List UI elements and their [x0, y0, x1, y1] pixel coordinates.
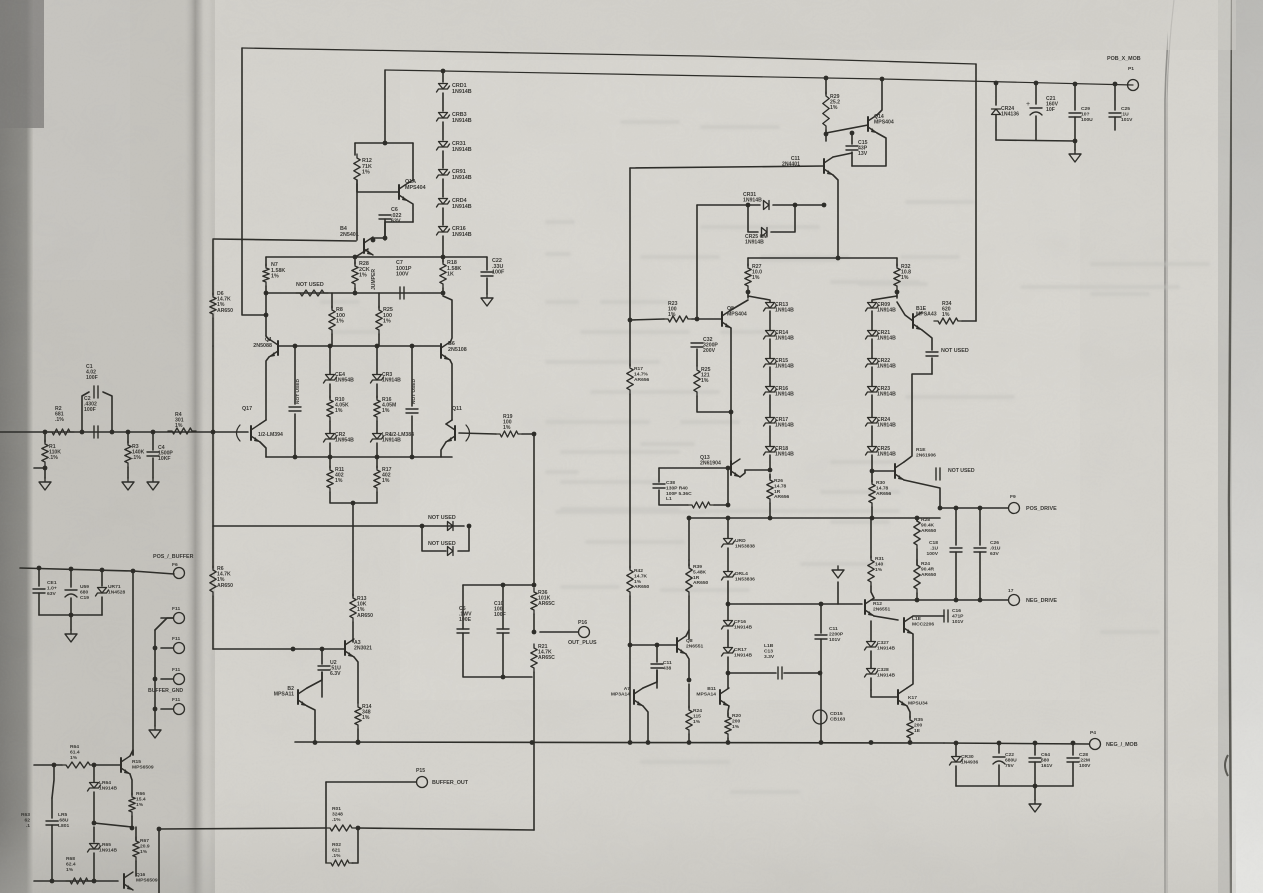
diode CR24	[871, 395, 873, 417]
node	[768, 516, 773, 521]
wire	[486, 278, 488, 294]
wire	[384, 70, 386, 143]
capacitor C7	[400, 287, 404, 299]
wire	[462, 585, 464, 629]
node	[264, 291, 269, 296]
wire	[686, 630, 689, 636]
capacitor C15	[851, 133, 853, 144]
node	[532, 583, 537, 588]
node	[824, 132, 829, 137]
node	[819, 740, 824, 745]
resistor R01	[326, 825, 356, 831]
wire	[352, 503, 354, 596]
wire	[161, 617, 173, 619]
wire	[152, 458, 154, 478]
capacitor C22b	[998, 743, 1000, 753]
transistor Q16	[123, 874, 125, 888]
node	[655, 643, 660, 648]
node	[157, 827, 162, 832]
transistor A3 2N3021	[344, 641, 346, 655]
diode CR23	[871, 367, 873, 386]
node	[92, 821, 97, 826]
wire	[916, 593, 918, 600]
diode CR27	[870, 621, 872, 641]
node	[100, 568, 105, 573]
terminal F13	[174, 674, 185, 685]
wire	[826, 125, 868, 133]
wire	[730, 413, 732, 461]
node	[153, 677, 158, 682]
wire	[354, 143, 356, 155]
node	[410, 455, 415, 460]
wire A3 base	[213, 648, 345, 650]
diode CR31	[439, 142, 448, 148]
wire	[825, 130, 827, 141]
terminal F14	[174, 704, 185, 715]
diode CR3	[376, 346, 378, 374]
wire	[727, 548, 729, 571]
resistor R13	[350, 594, 356, 622]
wire	[408, 201, 413, 222]
wire	[896, 290, 898, 298]
wire Q11 emitter	[441, 442, 446, 457]
node	[383, 141, 388, 146]
wire	[916, 549, 918, 560]
wire	[1034, 786, 1036, 800]
wire	[727, 581, 729, 620]
wire	[769, 455, 771, 470]
node	[915, 516, 920, 521]
wire	[727, 468, 729, 505]
svg-text:NOT USED: NOT USED	[948, 468, 975, 474]
wire	[354, 657, 358, 703]
wire	[93, 792, 95, 823]
node	[375, 455, 380, 460]
capacitor U2	[321, 649, 323, 664]
capacitor C20	[1074, 84, 1076, 110]
diode CR25	[748, 205, 758, 232]
svg-text:POS_/_BUFFER: POS_/_BUFFER	[153, 554, 194, 560]
resistor R68	[66, 878, 92, 884]
wire	[688, 734, 690, 742]
diode CR25	[871, 426, 873, 446]
resistor R18 inline	[442, 257, 444, 262]
node	[793, 203, 798, 208]
svg-text:NEG_/_MOB: NEG_/_MOB	[1106, 742, 1138, 748]
wire	[463, 633, 532, 677]
svg-text:P4: P4	[1090, 730, 1096, 736]
wire Q21 emitter down	[833, 175, 838, 258]
diode CR24b	[995, 83, 997, 105]
node	[291, 647, 296, 652]
terminal P7 NEG_DRIVE	[1009, 595, 1020, 606]
transistor B7 MPSA14	[633, 690, 635, 704]
resistor R3	[127, 432, 129, 443]
wire	[629, 394, 631, 568]
transistor Q15 MPS6509	[120, 758, 122, 772]
wire	[870, 651, 872, 668]
diode CR16	[769, 367, 771, 386]
wire rail 508	[940, 507, 1008, 509]
wire	[996, 140, 1075, 141]
node	[92, 879, 97, 884]
wire	[728, 603, 862, 605]
resistor N7 inline	[265, 257, 267, 266]
node	[50, 879, 55, 884]
wire	[1035, 116, 1037, 140]
diode CF16	[724, 621, 733, 627]
wire	[357, 184, 399, 192]
node	[351, 501, 356, 506]
wire	[307, 672, 322, 688]
diode CR14	[769, 311, 771, 330]
wire	[356, 180, 358, 240]
node	[211, 430, 216, 435]
wire	[354, 288, 356, 293]
diode CRB3	[439, 113, 448, 119]
svg-text:NOT USED: NOT USED	[428, 515, 456, 521]
resistor R25	[376, 306, 382, 334]
wire	[643, 670, 657, 688]
resistor R4	[168, 428, 196, 434]
wire	[265, 286, 267, 336]
wire	[442, 151, 444, 168]
capacitor C21	[1035, 83, 1037, 104]
terminal P1 POB_X_MOB	[1128, 80, 1139, 91]
wire bottom left rail	[34, 880, 118, 882]
ground	[481, 294, 493, 306]
wire	[352, 828, 358, 863]
wire	[907, 634, 913, 688]
resistor R02	[327, 860, 353, 866]
node	[954, 741, 959, 746]
wire	[907, 706, 910, 718]
wire	[696, 349, 698, 366]
wire	[94, 823, 132, 827]
wire Q11 collector	[446, 420, 452, 424]
svg-text:F11: F11	[172, 697, 180, 703]
node	[869, 740, 874, 745]
node	[895, 290, 900, 295]
capacitor C4	[152, 432, 154, 450]
wire	[213, 525, 422, 527]
resistor R26	[769, 474, 771, 478]
wire	[820, 639, 822, 742]
diode CR31	[748, 204, 760, 206]
transistor Q12 2N6551	[864, 600, 866, 614]
node	[410, 344, 415, 349]
capacitor C28	[1072, 743, 1074, 755]
resistor R64	[62, 762, 94, 768]
node	[92, 763, 97, 768]
wire	[916, 518, 918, 521]
wire	[158, 829, 160, 893]
node	[80, 430, 85, 435]
wire	[629, 168, 631, 366]
wire B6 collector	[443, 296, 452, 343]
wire	[442, 93, 444, 111]
wire	[727, 630, 729, 647]
terminal F11	[174, 613, 185, 624]
node	[383, 236, 388, 241]
node	[131, 569, 136, 574]
node	[994, 81, 999, 86]
wire	[771, 205, 795, 232]
wire	[70, 615, 72, 630]
diode CR13	[748, 296, 770, 302]
node	[264, 313, 269, 318]
wire	[212, 596, 214, 649]
wire	[1074, 141, 1076, 150]
wire Q15 emitter	[130, 774, 132, 795]
node	[130, 826, 135, 831]
node	[1033, 784, 1038, 789]
node	[978, 598, 983, 603]
svg-text:Q11: Q11	[452, 406, 462, 412]
wire	[132, 571, 134, 755]
node	[836, 256, 841, 261]
resistor R24c	[688, 684, 690, 708]
node	[978, 506, 983, 511]
ground	[149, 726, 161, 738]
node	[313, 740, 318, 745]
node	[441, 291, 446, 296]
node	[441, 255, 446, 260]
node	[870, 516, 875, 521]
resistor R30	[869, 480, 875, 507]
node	[356, 740, 361, 745]
svg-text:1/2-LM394: 1/2-LM394	[258, 432, 283, 438]
node	[646, 740, 651, 745]
transistor Q8 MPS404	[721, 312, 723, 326]
wire	[321, 672, 323, 697]
wire	[20, 568, 133, 571]
wire crossing to right	[696, 205, 698, 319]
node	[746, 290, 751, 295]
wire	[212, 346, 214, 568]
wire	[161, 678, 173, 680]
wire	[34, 467, 45, 469]
transistor Q11 LM384	[454, 426, 456, 440]
ground	[39, 478, 51, 490]
wire	[161, 708, 173, 710]
svg-text:NEG_DRIVE: NEG_DRIVE	[1026, 598, 1057, 604]
node	[69, 567, 74, 572]
node	[371, 238, 376, 243]
wire	[688, 596, 690, 639]
node	[441, 69, 446, 74]
node	[687, 516, 692, 521]
wire	[533, 614, 535, 632]
wire	[697, 204, 748, 206]
wire	[931, 358, 933, 374]
resistor R32	[896, 258, 898, 266]
node	[353, 291, 358, 296]
resistor R66	[129, 793, 135, 816]
wire rail 518	[689, 517, 940, 519]
wire	[871, 690, 898, 697]
wire	[870, 678, 872, 690]
capacitor C18	[955, 508, 957, 545]
wire	[727, 738, 729, 742]
ground	[65, 630, 77, 642]
node	[726, 602, 731, 607]
wire	[408, 143, 413, 183]
svg-text:17: 17	[1008, 588, 1014, 594]
transistor Q14 MPS404	[867, 117, 869, 131]
capacitor C11b	[656, 645, 658, 662]
svg-text:P16: P16	[578, 620, 587, 626]
wire bottom rail	[295, 742, 944, 743]
wire	[897, 302, 913, 321]
transistor Q18 2N6806	[894, 464, 896, 478]
transistor B6 2N5108	[440, 344, 442, 358]
terminal P16 OUT_PLUS	[540, 631, 578, 633]
diode CR18	[769, 426, 771, 446]
node	[467, 524, 472, 529]
node	[153, 646, 158, 651]
diode CR28	[867, 669, 876, 675]
resistor R25b	[694, 366, 700, 396]
node	[850, 131, 855, 136]
wire	[533, 672, 535, 830]
wire	[852, 133, 886, 166]
transistor Q20 MPSU34	[897, 690, 899, 704]
resistor R12	[354, 154, 360, 184]
resistor R1	[44, 432, 46, 442]
resistor R6	[210, 566, 216, 596]
capacitor C25	[1114, 84, 1116, 110]
svg-text:C11438: C11438	[663, 660, 672, 671]
terminal P4 NEG_MOB	[1090, 739, 1101, 750]
capacitor NOT USED	[926, 351, 938, 353]
wire Q1 emitter	[266, 357, 269, 420]
wire	[913, 615, 944, 617]
wire	[378, 334, 380, 346]
transistor B11 MPSA14	[719, 690, 721, 704]
wire	[442, 179, 444, 197]
wire	[1072, 762, 1074, 786]
node	[729, 410, 734, 415]
node	[293, 344, 298, 349]
wire	[355, 142, 413, 144]
diode CR17	[769, 395, 771, 417]
node	[501, 675, 506, 680]
wire	[904, 374, 932, 462]
wire	[998, 765, 1000, 786]
wire	[922, 330, 932, 350]
node	[908, 740, 913, 745]
svg-text:NOT USED: NOT USED	[295, 379, 301, 404]
wire	[385, 70, 1133, 85]
wire	[630, 644, 677, 646]
resistor R31	[870, 518, 872, 558]
wire	[325, 828, 327, 863]
diode CRD1	[439, 84, 448, 90]
wire terminal link	[133, 571, 174, 574]
capacitor C24	[1034, 743, 1036, 755]
capacitor C13	[728, 672, 776, 674]
node	[356, 740, 361, 745]
transistor Q13 2N61904	[730, 461, 732, 475]
wire	[329, 443, 331, 457]
node	[628, 643, 633, 648]
diode CRD4	[439, 199, 448, 205]
node	[628, 740, 633, 745]
wire	[161, 647, 173, 649]
wire	[630, 319, 664, 320]
svg-text:P15: P15	[416, 768, 425, 774]
resistor R19	[496, 431, 522, 437]
resistor R35	[907, 716, 913, 742]
node	[746, 203, 751, 208]
wire	[330, 492, 377, 503]
wire	[331, 334, 333, 346]
node	[43, 430, 48, 435]
wire	[241, 48, 243, 240]
node	[824, 76, 829, 81]
capacitor LR5	[52, 765, 54, 798]
node	[293, 455, 298, 460]
node	[69, 613, 74, 618]
wire	[463, 584, 534, 586]
capacitor C26	[979, 508, 981, 545]
resistor R39	[688, 560, 690, 566]
wire	[956, 785, 1073, 787]
diode CR17b	[724, 648, 733, 654]
wire	[955, 766, 957, 786]
wire	[442, 208, 444, 225]
capacitor C2	[94, 426, 98, 438]
wire	[979, 552, 981, 600]
wire	[975, 64, 977, 321]
wire	[352, 622, 354, 642]
wire	[154, 709, 156, 726]
wire	[442, 122, 444, 140]
resistor R20b	[725, 713, 731, 738]
wire	[874, 616, 898, 620]
svg-text:JUMPER: JUMPER	[371, 269, 377, 290]
node	[530, 740, 535, 745]
node	[954, 598, 959, 603]
svg-text:POB_X_MOB: POB_X_MOB	[1107, 56, 1141, 62]
wire	[697, 396, 731, 412]
node	[420, 524, 425, 529]
diode not used 1	[422, 525, 464, 527]
wire	[714, 504, 728, 506]
wire	[629, 596, 631, 645]
transistor B4 2N5401	[363, 239, 365, 253]
wire	[358, 828, 534, 830]
capacitor CE1	[38, 568, 40, 586]
wire	[730, 328, 732, 413]
wire	[378, 293, 380, 308]
wire	[131, 816, 133, 828]
wire	[872, 470, 895, 472]
node	[320, 647, 325, 652]
resistor R14	[355, 703, 361, 729]
node	[353, 255, 358, 260]
wire	[331, 293, 333, 308]
wire	[728, 706, 729, 716]
resistor R8	[329, 306, 335, 334]
transistor Q17 LM394	[250, 426, 252, 440]
node	[532, 432, 537, 437]
ground	[122, 478, 134, 490]
node	[819, 602, 824, 607]
wire	[955, 552, 957, 600]
wire B4 emitter to R28	[355, 249, 368, 257]
